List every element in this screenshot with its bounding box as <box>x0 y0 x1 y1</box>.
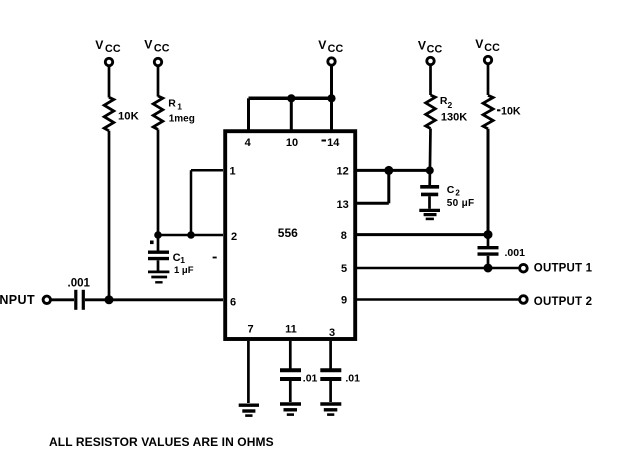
svg-text:130K: 130K <box>441 111 467 123</box>
svg-text:10K: 10K <box>118 111 140 123</box>
svg-text:.001: .001 <box>68 277 91 289</box>
svg-text:13: 13 <box>336 199 348 211</box>
svg-text:7: 7 <box>248 324 254 336</box>
svg-text:CC: CC <box>154 43 170 55</box>
svg-text:1: 1 <box>177 102 182 112</box>
svg-text:ALL RESISTOR VALUES ARE IN OHM: ALL RESISTOR VALUES ARE IN OHMS <box>49 435 274 449</box>
svg-text:556: 556 <box>278 226 298 240</box>
svg-text:1meg: 1meg <box>169 113 195 124</box>
svg-text:V: V <box>418 39 427 53</box>
svg-text:2: 2 <box>231 231 237 243</box>
svg-text:1: 1 <box>229 166 235 178</box>
svg-text:2: 2 <box>448 100 453 110</box>
svg-text:R: R <box>168 97 176 109</box>
svg-text:9: 9 <box>341 295 347 307</box>
svg-text:14: 14 <box>327 137 340 149</box>
svg-text:CC: CC <box>427 44 443 56</box>
svg-text:.01: .01 <box>303 373 318 385</box>
svg-text:8: 8 <box>341 230 347 242</box>
svg-text:10: 10 <box>286 137 298 149</box>
svg-text:OUTPUT 2: OUTPUT 2 <box>534 296 592 308</box>
svg-text:OUTPUT 1: OUTPUT 1 <box>534 263 593 275</box>
svg-text:5: 5 <box>341 263 347 275</box>
svg-text:INPUT: INPUT <box>0 293 35 307</box>
svg-text:10K: 10K <box>501 106 521 118</box>
svg-text:11: 11 <box>285 324 297 336</box>
svg-text:6: 6 <box>230 297 236 309</box>
svg-text:C: C <box>447 184 455 196</box>
svg-text:CC: CC <box>328 43 344 55</box>
svg-text:3: 3 <box>329 327 335 339</box>
svg-text:2: 2 <box>455 189 460 198</box>
svg-text:CC: CC <box>105 43 121 55</box>
svg-text:1 μF: 1 μF <box>174 265 194 276</box>
svg-text:CC: CC <box>484 42 500 54</box>
svg-text:V: V <box>475 37 484 51</box>
svg-text:.001: .001 <box>505 247 526 259</box>
svg-text:V: V <box>95 38 104 52</box>
svg-text:V: V <box>318 38 327 52</box>
svg-text:V: V <box>144 38 153 52</box>
svg-text:12: 12 <box>336 166 348 178</box>
svg-text:50 μF: 50 μF <box>447 198 475 209</box>
svg-text:.01: .01 <box>345 373 360 385</box>
svg-text:1: 1 <box>180 255 185 265</box>
svg-text:4: 4 <box>245 137 252 149</box>
